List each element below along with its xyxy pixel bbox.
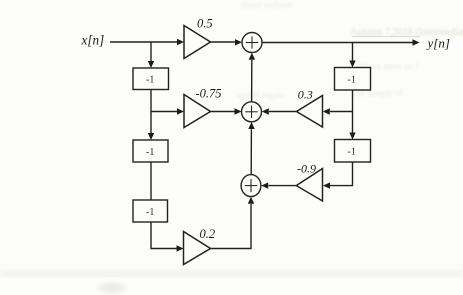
delay box L1 (-1) bbox=[133, 68, 169, 90]
gain triangle -0.9 (left-pointing) bbox=[296, 161, 322, 201]
arrowhead y[n] output bbox=[413, 39, 420, 45]
gain triangle 0.2 bbox=[184, 227, 216, 265]
faint scan smudge bbox=[98, 283, 126, 293]
arrowhead into 0.2 gain bbox=[177, 245, 184, 251]
arrowhead into adder S3 from below bbox=[248, 197, 254, 204]
scan shadow band bbox=[0, 270, 463, 278]
wire: left chain box1 -> box2 with tap bbox=[150, 90, 152, 134]
svg-text:-0.75: -0.75 bbox=[196, 87, 222, 101]
wire: adder S3 -> adder S2 bbox=[250, 129, 252, 174]
svg-text:0.5: 0.5 bbox=[197, 17, 213, 31]
arrowhead into right box2 bbox=[349, 133, 355, 140]
arrowhead into -0.75 gain bbox=[177, 108, 184, 114]
arrowhead into 0.5 gain bbox=[177, 39, 184, 45]
arrowhead into adder S2 from below bbox=[248, 122, 254, 129]
bleed-through underline (scan artifact) bbox=[352, 36, 420, 38]
adder S1 bbox=[242, 33, 262, 53]
wire: right chain box2 -> -0.9 gain bbox=[330, 162, 353, 186]
svg-text:y[n]: y[n] bbox=[426, 36, 450, 51]
arrowhead into adder S3 from -0.9 gain bbox=[261, 182, 268, 188]
wire: right tap to 0.3 gain bbox=[330, 111, 353, 113]
wire: 0.3 gain -> adder S2 bbox=[269, 111, 297, 113]
wire: adder S1 -> y[n] bbox=[262, 42, 413, 44]
delay box L3 (-1) bbox=[133, 200, 168, 222]
wire: left chain box2 -> box3 bbox=[150, 162, 152, 200]
adder S2 bbox=[242, 102, 262, 122]
wire: right chain box1 -> box2 with tap bbox=[352, 90, 354, 133]
arrowhead into right box1 bbox=[349, 61, 355, 68]
svg-text:x[n]: x[n] bbox=[81, 32, 105, 47]
svg-text:-1: -1 bbox=[146, 75, 154, 86]
wire: -0.9 gain -> adder S3 bbox=[269, 185, 297, 187]
delay box R1 (-1) bbox=[335, 68, 371, 91]
svg-text:direct verbose: direct verbose bbox=[241, 0, 292, 10]
svg-text:-1: -1 bbox=[348, 75, 356, 86]
wire: left tap to -0.75 gain bbox=[151, 111, 178, 113]
arrowhead into 0.3 gain bbox=[323, 108, 330, 114]
svg-text:would regain: would regain bbox=[237, 90, 285, 100]
gain triangle 0.3 (left-pointing) bbox=[297, 87, 323, 127]
svg-text:-1: -1 bbox=[146, 147, 154, 158]
wire: right tap down from output line bbox=[352, 43, 354, 62]
delay box L2 (-1) bbox=[133, 140, 168, 162]
wire: 0.2 gain -> adder S3 bbox=[211, 204, 252, 249]
svg-text:0.3: 0.3 bbox=[298, 87, 313, 101]
wire: top line gain->adder bbox=[211, 41, 236, 43]
svg-text:-0.9: -0.9 bbox=[297, 161, 316, 175]
delay box R2 (-1) bbox=[335, 140, 371, 163]
arrowhead into adder S2 from -0.75 bbox=[235, 108, 242, 114]
wire: left chain box3 -> 0.2 gain bbox=[151, 222, 177, 249]
gain triangle 0.5 bbox=[184, 17, 213, 59]
svg-text:-1: -1 bbox=[348, 147, 356, 158]
arrowhead into adder S1 from gain bbox=[235, 39, 242, 45]
svg-text:-1: -1 bbox=[146, 207, 154, 218]
arrowhead into left box1 bbox=[148, 61, 154, 68]
wire: adder S2 -> adder S1 bbox=[251, 60, 253, 102]
arrowhead into -0.9 gain bbox=[323, 182, 330, 188]
arrowhead into adder S1 from below bbox=[249, 53, 255, 60]
wire: left tap down from input bbox=[150, 42, 152, 62]
svg-text:0.2: 0.2 bbox=[200, 227, 216, 241]
arrowhead into adder S2 from 0.3 gain bbox=[262, 108, 269, 114]
arrowhead into left box2 bbox=[148, 133, 154, 140]
adder S3 bbox=[241, 175, 261, 197]
gain triangle -0.75 bbox=[184, 87, 222, 128]
wire: -0.75 gain -> adder S2 bbox=[211, 111, 235, 113]
wire: x[n] input line bbox=[110, 41, 178, 43]
